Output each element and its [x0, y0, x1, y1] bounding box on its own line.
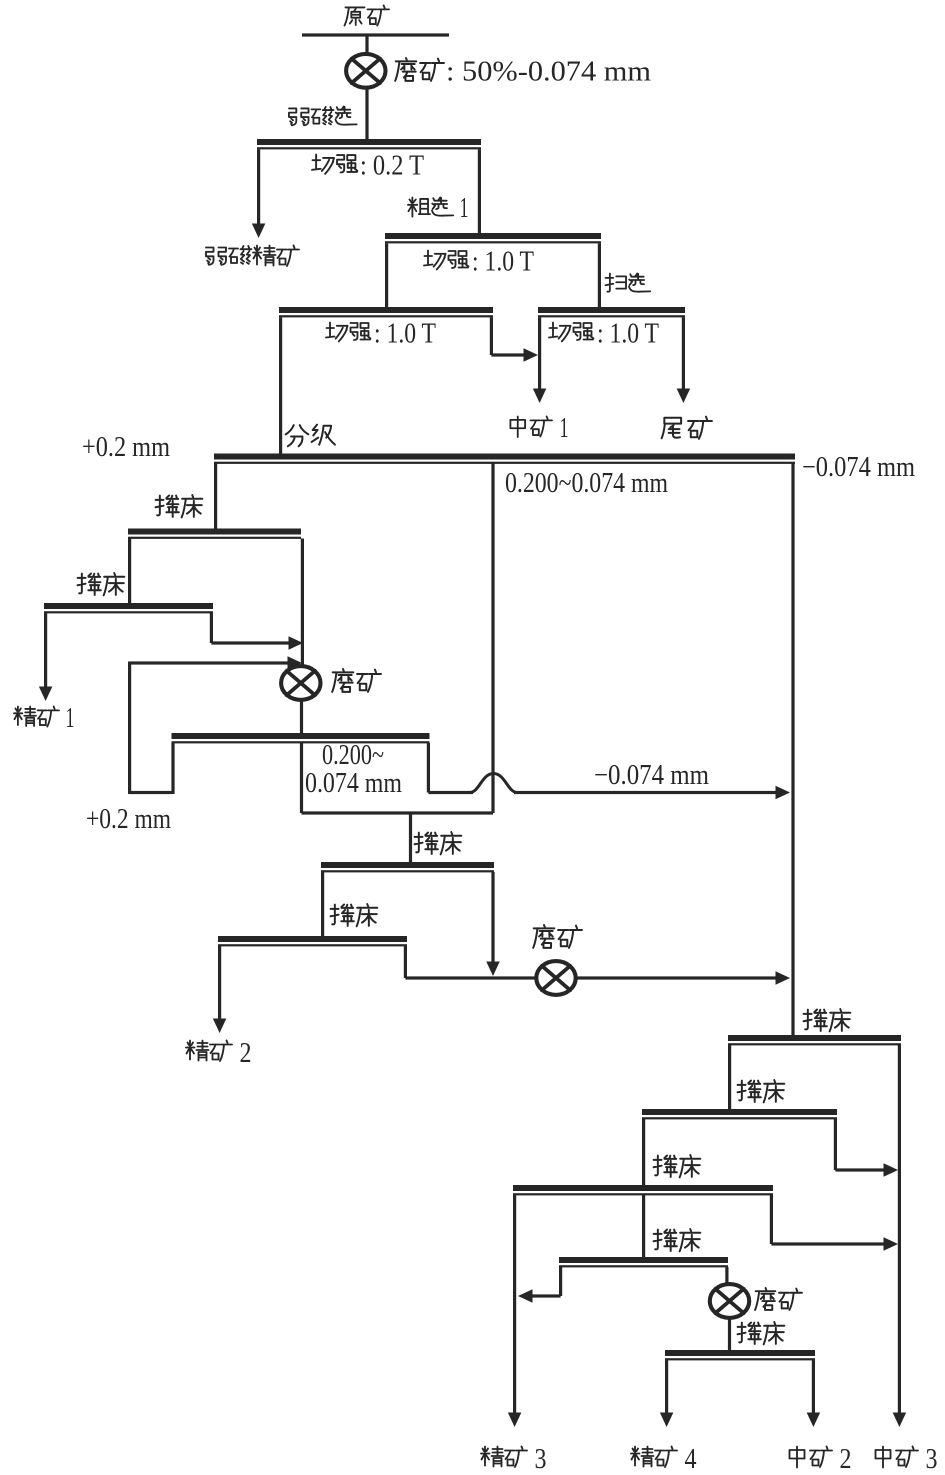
svg-text:1: 1	[460, 193, 469, 224]
svg-text:3: 3	[535, 1444, 547, 1475]
svg-text:: 1.0 T: : 1.0 T	[374, 319, 436, 350]
svg-text:1: 1	[66, 703, 75, 734]
svg-text:+0.2 mm: +0.2 mm	[82, 432, 170, 463]
svg-text:0.074 mm: 0.074 mm	[305, 768, 402, 799]
svg-text:3: 3	[926, 1444, 938, 1475]
svg-text:: 1.0 T: : 1.0 T	[472, 247, 534, 278]
svg-text:−0.074 mm: −0.074 mm	[594, 760, 709, 791]
svg-text:2: 2	[240, 1038, 252, 1069]
svg-text:0.200~: 0.200~	[322, 740, 384, 771]
svg-text:0.200~0.074 mm: 0.200~0.074 mm	[505, 468, 668, 499]
svg-text:−0.074 mm: −0.074 mm	[802, 452, 915, 483]
svg-text:: 0.2 T: : 0.2 T	[360, 151, 424, 182]
svg-text:2: 2	[840, 1444, 852, 1475]
svg-text:+0.2 mm: +0.2 mm	[86, 804, 171, 835]
svg-text:: 1.0 T: : 1.0 T	[597, 319, 659, 350]
svg-text:: 50%-0.074 mm: : 50%-0.074 mm	[446, 57, 651, 88]
svg-text:1: 1	[560, 413, 569, 444]
svg-text:4: 4	[685, 1444, 697, 1475]
